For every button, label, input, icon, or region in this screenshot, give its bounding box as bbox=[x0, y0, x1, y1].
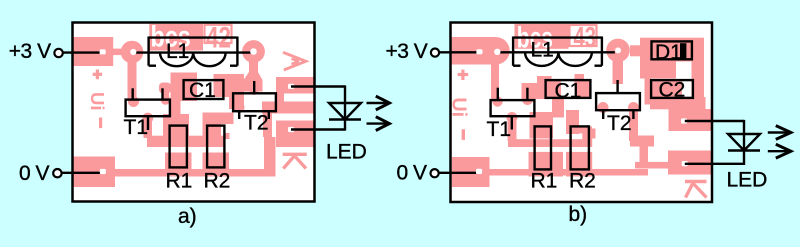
svg-text:T1: T1 bbox=[124, 116, 149, 139]
svg-text:L1: L1 bbox=[531, 39, 554, 62]
svg-text:+3 V: +3 V bbox=[386, 40, 428, 63]
svg-text:a): a) bbox=[178, 205, 197, 228]
svg-text:T1: T1 bbox=[487, 118, 512, 141]
svg-text:LED: LED bbox=[326, 140, 367, 163]
svg-text:T2: T2 bbox=[607, 112, 632, 135]
svg-text:LED: LED bbox=[727, 169, 768, 192]
svg-text:0 V: 0 V bbox=[19, 162, 50, 185]
svg-text:0 V: 0 V bbox=[397, 162, 428, 185]
svg-text:C1: C1 bbox=[555, 79, 582, 102]
svg-text:T2: T2 bbox=[244, 111, 269, 134]
svg-text:R1: R1 bbox=[531, 170, 558, 193]
svg-text:C1: C1 bbox=[189, 79, 216, 102]
svg-text:C2: C2 bbox=[659, 79, 686, 102]
svg-text:b): b) bbox=[569, 203, 588, 226]
svg-text:R2: R2 bbox=[204, 170, 231, 193]
svg-text:D1: D1 bbox=[655, 41, 682, 64]
svg-text:L1: L1 bbox=[166, 40, 189, 63]
svg-text:Ui: Ui bbox=[87, 92, 108, 111]
svg-text:R1: R1 bbox=[166, 170, 193, 193]
svg-text:R2: R2 bbox=[569, 170, 596, 193]
svg-text:+3 V: +3 V bbox=[9, 40, 51, 63]
